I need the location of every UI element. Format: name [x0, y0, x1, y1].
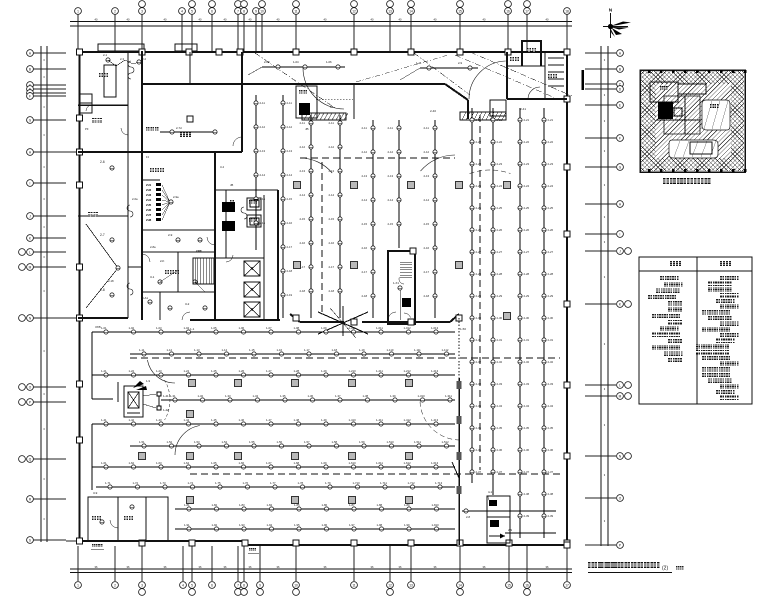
svg-text:3-4: 3-4	[220, 165, 224, 169]
svg-text:15: 15	[458, 9, 462, 13]
svg-text:14: 14	[409, 9, 413, 13]
svg-text:1-94: 1-94	[267, 523, 273, 527]
hatched threshold strip right	[460, 112, 506, 120]
svg-text:2-24: 2-24	[476, 184, 482, 188]
svg-text:2-38: 2-38	[548, 492, 554, 496]
svg-text:2-13: 2-13	[388, 174, 394, 178]
svg-text:1-29: 1-29	[321, 369, 327, 373]
legend table right column rows	[696, 276, 739, 400]
room C label	[88, 118, 102, 217]
svg-text:2-8a: 2-8a	[150, 245, 156, 249]
corridor detector row right	[400, 61, 478, 80]
legend table left column rows	[648, 276, 683, 362]
equipment alcove at corridor	[296, 86, 317, 118]
svg-text:2-18: 2-18	[108, 279, 114, 283]
svg-text:1-013: 1-013	[431, 326, 439, 330]
svg-text:1-67: 1-67	[266, 461, 272, 465]
door swing arcs upper-left	[86, 105, 242, 320]
svg-text:10: 10	[260, 9, 264, 13]
svg-text:1-54: 1-54	[222, 440, 228, 444]
svg-text:1-32: 1-32	[198, 394, 204, 398]
core block walls	[190, 190, 280, 320]
corridor door swing arc	[469, 61, 506, 99]
svg-text:2-14: 2-14	[287, 173, 293, 177]
bottom grid lines	[78, 546, 567, 581]
door curl marks corridor	[127, 205, 247, 295]
small riser bar right of wall	[582, 70, 585, 90]
svg-text:3: 3	[141, 583, 143, 587]
mid parking stair shaft	[388, 248, 416, 324]
svg-text:2-27: 2-27	[524, 250, 530, 254]
svg-text:8: 8	[243, 583, 245, 587]
svg-text:ZJ6: ZJ6	[146, 208, 152, 212]
svg-text:1-55: 1-55	[249, 440, 255, 444]
elevator shaft 3	[244, 302, 260, 317]
svg-text:1-512: 1-512	[442, 440, 450, 444]
svg-text:2-33: 2-33	[524, 382, 530, 386]
ramp edge wall right segment	[362, 314, 459, 322]
svg-text:M: M	[619, 394, 622, 398]
svg-text:2-25: 2-25	[497, 206, 503, 210]
svg-text:2-33: 2-33	[497, 382, 503, 386]
misc labels upper-left	[85, 57, 233, 253]
svg-text:1-110: 1-110	[387, 348, 394, 352]
top column grid dimension lines	[70, 18, 572, 29]
top grid lines	[78, 14, 567, 51]
wall column squares top	[139, 49, 511, 55]
svg-text:3XB: 3XB	[95, 325, 101, 329]
ramp guide diagonal	[356, 55, 448, 82]
svg-text:5: 5	[191, 583, 193, 587]
svg-text:2-30: 2-30	[476, 316, 482, 320]
svg-text:1-010: 1-010	[349, 326, 357, 330]
svg-text:2-K: 2-K	[160, 259, 164, 263]
svg-text:2: 2	[114, 583, 116, 587]
svg-text:2-23: 2-23	[524, 162, 530, 166]
outer wall bottom step	[244, 541, 246, 545]
svg-text:2-34: 2-34	[476, 404, 482, 408]
svg-text:2-29: 2-29	[476, 294, 482, 298]
interior wall chamfer	[445, 84, 468, 100]
svg-text:2-28: 2-28	[497, 272, 503, 276]
svg-text:2-35: 2-35	[476, 426, 482, 430]
interior wall x468	[467, 100, 469, 119]
svg-text:1-83: 1-83	[239, 503, 245, 507]
svg-text:F: F	[29, 94, 31, 98]
room A desk rectangle	[104, 65, 116, 97]
svg-text:1-07: 1-07	[266, 326, 272, 330]
svg-text:1-26: 1-26	[239, 369, 245, 373]
north arrow	[603, 8, 631, 39]
svg-text:1-98: 1-98	[377, 523, 383, 527]
svg-text:2-32: 2-32	[497, 360, 503, 364]
svg-text:2-35: 2-35	[524, 426, 530, 430]
svg-text:2-22: 2-22	[476, 140, 482, 144]
svg-text:ZJ4: ZJ4	[146, 198, 152, 202]
svg-text:1-35: 1-35	[280, 394, 286, 398]
svg-text:1: 1	[77, 583, 79, 587]
svg-text:2-36: 2-36	[497, 448, 503, 452]
svg-text:5: 5	[191, 9, 193, 13]
svg-text:1-612: 1-612	[404, 461, 412, 465]
svg-text:2-12: 2-12	[424, 150, 430, 154]
svg-text:PD: PD	[198, 249, 202, 253]
svg-text:9: 9	[255, 9, 257, 13]
svg-text:ZJ3: ZJ3	[146, 193, 152, 197]
svg-text:1-73: 1-73	[160, 481, 166, 485]
svg-text:PF: PF	[85, 127, 89, 131]
svg-text:1-51: 1-51	[139, 440, 145, 444]
svg-text:2-11: 2-11	[300, 121, 306, 125]
svg-text:2-33: 2-33	[476, 382, 482, 386]
svg-text:1-04: 1-04	[293, 60, 299, 64]
svg-text:E: E	[619, 103, 621, 107]
svg-text:2-24: 2-24	[548, 184, 554, 188]
svg-text:2-12: 2-12	[300, 145, 306, 149]
big room D detectors	[146, 126, 217, 134]
upper parking turn arcs	[300, 155, 511, 174]
svg-text:2-29: 2-29	[497, 294, 503, 298]
svg-text:2-31: 2-31	[548, 338, 554, 342]
left grid bubbles	[19, 50, 34, 544]
svg-text:1-65: 1-65	[211, 461, 217, 465]
ramp diagonal dash-dot lines	[255, 52, 572, 108]
service rooms dark labels	[230, 198, 261, 227]
svg-text:2-36: 2-36	[476, 448, 482, 452]
svg-text:2-15: 2-15	[362, 222, 368, 226]
svg-text:2-9a: 2-9a	[173, 195, 179, 199]
svg-text:2-16: 2-16	[329, 241, 335, 245]
ramp crossing X barrier	[318, 306, 368, 338]
lower-left rooms	[88, 491, 168, 541]
svg-text:1-76: 1-76	[243, 481, 249, 485]
svg-text:L: L	[619, 383, 621, 387]
service room scribbles	[222, 200, 259, 231]
svg-text:2-35: 2-35	[548, 426, 554, 430]
svg-text:1-41: 1-41	[101, 418, 107, 422]
svg-text:18: 18	[565, 9, 569, 13]
svg-text:1-17: 1-17	[304, 348, 310, 352]
svg-text:3-2: 3-2	[185, 302, 190, 306]
svg-text:1-43: 1-43	[156, 418, 162, 422]
svg-text:1-46: 1-46	[239, 418, 245, 422]
svg-text:P: P	[619, 543, 621, 547]
svg-text:2-3: 2-3	[120, 57, 124, 61]
svg-text:1-21: 1-21	[101, 369, 107, 373]
svg-text:2-30: 2-30	[548, 316, 554, 320]
outer wall left	[78, 52, 80, 541]
svg-text:(2): (2)	[662, 566, 668, 572]
svg-text:1-34: 1-34	[253, 394, 259, 398]
svg-text:2-22: 2-22	[524, 140, 530, 144]
svg-text:2-16: 2-16	[300, 241, 306, 245]
svg-text:1-311: 1-311	[445, 394, 452, 398]
svg-text:2-6a: 2-6a	[132, 197, 138, 201]
svg-text:7: 7	[237, 583, 239, 587]
svg-text:1-79: 1-79	[325, 481, 331, 485]
svg-text:2-31: 2-31	[524, 338, 530, 342]
corridor dotted guide	[316, 98, 353, 100]
svg-text:1-71: 1-71	[105, 481, 111, 485]
svg-text:1-91: 1-91	[184, 523, 190, 527]
svg-text:2-39: 2-39	[524, 514, 530, 518]
legend table frame	[639, 257, 752, 404]
svg-text:7: 7	[237, 9, 239, 13]
canopy stub left	[98, 44, 144, 51]
wall x459 column marks	[457, 381, 462, 494]
ramp diagonal tick near x459	[452, 462, 459, 478]
svg-text:1-97: 1-97	[349, 523, 355, 527]
svg-text:1-011: 1-011	[376, 326, 383, 330]
label near bottom step	[248, 548, 259, 553]
wall column squares bottom	[139, 540, 570, 546]
svg-text:2-23: 2-23	[548, 162, 554, 166]
big room D label	[180, 132, 191, 137]
svg-text:2-24: 2-24	[524, 184, 530, 188]
right dimension lines	[599, 46, 610, 546]
svg-text:2-29: 2-29	[548, 294, 554, 298]
svg-text:2-34: 2-34	[497, 404, 503, 408]
svg-text:1-713: 1-713	[435, 481, 443, 485]
outer wall top	[79, 51, 522, 53]
svg-text:10: 10	[294, 583, 298, 587]
wall column squares right	[564, 49, 570, 548]
svg-text:2-7d: 2-7d	[176, 126, 182, 130]
big room D column	[187, 116, 193, 122]
svg-text:2-30: 2-30	[524, 316, 530, 320]
svg-text:1-92: 1-92	[212, 523, 218, 527]
elevator shaft 2	[244, 282, 260, 297]
interior wall y105	[78, 104, 128, 106]
svg-text:2-15: 2-15	[260, 197, 266, 201]
hydrant label below wall	[91, 544, 104, 549]
svg-text:ZJ1: ZJ1	[146, 183, 152, 187]
svg-text:1-04: 1-04	[184, 326, 190, 330]
svg-text:2-15: 2-15	[424, 222, 430, 226]
svg-text:I: I	[30, 181, 31, 185]
svg-text:2-17: 2-17	[362, 270, 368, 274]
svg-text:2-12: 2-12	[287, 125, 293, 129]
svg-text:1-12: 1-12	[167, 348, 173, 352]
svg-text:1-212: 1-212	[404, 369, 412, 373]
svg-text:2-26: 2-26	[476, 228, 482, 232]
svg-text:1-96: 1-96	[322, 523, 328, 527]
svg-text:2-39: 2-39	[548, 514, 554, 518]
svg-text:1-42: 1-42	[129, 418, 135, 422]
interior wall y84 upper corridor	[142, 83, 445, 85]
svg-text:2-27: 2-27	[548, 250, 554, 254]
svg-text:1-68: 1-68	[294, 461, 300, 465]
wall column squares left	[77, 49, 83, 544]
svg-text:1-38: 1-38	[363, 394, 369, 398]
svg-text:2-26: 2-26	[548, 228, 554, 232]
interior wall x242 big room	[241, 52, 243, 152]
upper parking detector wires	[254, 95, 266, 250]
svg-text:1-22: 1-22	[129, 369, 135, 373]
svg-text:1-36: 1-36	[308, 394, 314, 398]
svg-text:2-13: 2-13	[300, 169, 306, 173]
key plan hatched square	[531, 70, 760, 172]
svg-text:2-32: 2-32	[548, 360, 554, 364]
svg-text:1-33: 1-33	[225, 394, 231, 398]
svg-text:8: 8	[243, 9, 245, 13]
svg-text:2-14: 2-14	[388, 198, 394, 202]
corridor drive arc	[303, 68, 344, 109]
partition walls mid-left	[142, 180, 178, 320]
svg-text:2-23: 2-23	[476, 162, 482, 166]
svg-text:F: F	[619, 136, 621, 140]
svg-text:1-48: 1-48	[294, 418, 300, 422]
svg-text:2-18: 2-18	[362, 294, 368, 298]
svg-text:2-27: 2-27	[476, 250, 482, 254]
svg-text:6: 6	[211, 9, 213, 13]
svg-text:1-82: 1-82	[212, 503, 218, 507]
svg-text:ZJ5: ZJ5	[146, 203, 152, 207]
svg-text:1-06: 1-06	[239, 326, 245, 330]
svg-text:2-36: 2-36	[524, 448, 530, 452]
interior wall x128 corridor	[127, 51, 129, 318]
svg-text:2-21: 2-21	[497, 118, 503, 122]
svg-text:1-510: 1-510	[387, 440, 395, 444]
room A label	[99, 73, 108, 77]
svg-text:1-112: 1-112	[442, 348, 449, 352]
svg-text:JB: JB	[230, 183, 233, 187]
svg-text:2-19: 2-19	[287, 293, 293, 297]
svg-text:1-9: 1-9	[146, 379, 150, 383]
interior wall x190 upper band	[189, 52, 191, 84]
svg-text:2-12: 2-12	[362, 150, 368, 154]
svg-text:2-37: 2-37	[548, 470, 554, 474]
svg-text:3-A1: 3-A1	[142, 296, 148, 300]
svg-text:2-36: 2-36	[548, 448, 554, 452]
svg-text:1-31: 1-31	[170, 394, 176, 398]
ramp edge wall left segment	[290, 314, 344, 322]
right strip cross row 2	[505, 528, 556, 533]
svg-text:1-610: 1-610	[349, 461, 357, 465]
bottom grid bubbles	[75, 582, 571, 596]
svg-text:1: 1	[77, 9, 79, 13]
svg-text:12: 12	[388, 583, 392, 587]
svg-text:15: 15	[507, 583, 511, 587]
svg-text:2-28: 2-28	[548, 272, 554, 276]
svg-text:B: B	[29, 67, 31, 71]
room C detectors	[100, 160, 114, 297]
svg-text:2-34: 2-34	[524, 404, 530, 408]
svg-text:1-411: 1-411	[376, 418, 383, 422]
svg-text:2-37: 2-37	[476, 470, 482, 474]
svg-text:2-9: 2-9	[458, 61, 462, 65]
svg-text:1-810: 1-810	[432, 503, 440, 507]
svg-text:1-213: 1-213	[431, 369, 439, 373]
svg-text:2-33: 2-33	[548, 382, 554, 386]
svg-text:2-37: 2-37	[497, 470, 503, 474]
svg-text:JB: JB	[305, 127, 309, 131]
svg-text:4-1: 4-1	[488, 490, 492, 494]
top-right stair hatch	[548, 58, 564, 86]
room C diagonal V mark	[86, 224, 120, 308]
svg-text:2-17: 2-17	[287, 245, 293, 249]
svg-text:2-11: 2-11	[424, 126, 430, 130]
roof shaft protrusion top	[522, 41, 541, 52]
svg-text:1-16: 1-16	[277, 348, 283, 352]
svg-text:11: 11	[294, 9, 298, 13]
svg-text:2-15: 2-15	[287, 197, 293, 201]
svg-text:2-18: 2-18	[424, 294, 430, 298]
svg-text:1-64: 1-64	[184, 461, 190, 465]
svg-text:2-13: 2-13	[287, 149, 293, 153]
svg-text:2-18: 2-18	[329, 289, 335, 293]
svg-text:17: 17	[565, 583, 569, 587]
right strip detector wires	[470, 108, 482, 483]
svg-text:2-16: 2-16	[260, 221, 266, 225]
lower parking wire riser	[92, 332, 113, 490]
svg-text:2-35: 2-35	[497, 426, 503, 430]
fan room label	[150, 168, 164, 172]
svg-text:2-13: 2-13	[362, 174, 368, 178]
svg-text:1-18: 1-18	[332, 348, 338, 352]
svg-text:1-50: 1-50	[460, 327, 466, 331]
svg-text:17: 17	[525, 9, 529, 13]
svg-text:2-41: 2-41	[520, 107, 526, 111]
svg-text:S: S	[29, 538, 31, 542]
right grid leader lines	[585, 53, 616, 545]
svg-text:2-31: 2-31	[497, 338, 503, 342]
top-right room labels	[510, 48, 557, 78]
elevator shaft 1	[244, 261, 260, 276]
svg-text:2-6: 2-6	[100, 160, 105, 164]
svg-text:4: 4	[182, 583, 184, 587]
svg-text:M: M	[29, 265, 32, 269]
outer wall bottom right	[245, 544, 567, 546]
lower parking detector rows	[92, 326, 455, 334]
svg-text:1-95: 1-95	[294, 523, 300, 527]
svg-text:1-41: 1-41	[163, 394, 169, 398]
svg-text:1-28: 1-28	[294, 369, 300, 373]
room A detectors	[103, 53, 146, 66]
svg-text:2-26: 2-26	[524, 228, 530, 232]
svg-text:ZJ7: ZJ7	[146, 213, 152, 217]
upper parking columns	[294, 182, 511, 320]
lower parking lane dashed	[130, 358, 560, 474]
svg-text:2-25: 2-25	[548, 206, 554, 210]
svg-text:ZJ8: ZJ8	[146, 218, 152, 222]
svg-text:2-28: 2-28	[524, 272, 530, 276]
drawing title	[588, 562, 683, 573]
svg-text:1-66: 1-66	[239, 461, 245, 465]
svg-text:3-9: 3-9	[93, 491, 98, 495]
svg-text:1-72: 1-72	[133, 481, 139, 485]
svg-text:N: N	[609, 8, 613, 14]
fan room label cluster	[146, 183, 179, 222]
svg-text:ZJ2: ZJ2	[146, 188, 152, 192]
closet room on left wall	[80, 94, 92, 113]
svg-text:2: 2	[114, 9, 116, 13]
svg-text:1-310: 1-310	[418, 394, 426, 398]
svg-text:2-26: 2-26	[497, 228, 503, 232]
svg-text:2-15: 2-15	[300, 217, 306, 221]
svg-text:14: 14	[458, 583, 462, 587]
svg-text:1-X1: 1-X1	[393, 281, 399, 285]
svg-text:2-11: 2-11	[287, 101, 293, 105]
svg-text:1-13: 1-13	[194, 348, 200, 352]
svg-text:11: 11	[352, 583, 356, 587]
svg-text:2-9: 2-9	[508, 528, 512, 532]
svg-text:1-1: 1-1	[190, 327, 195, 331]
svg-text:1-78: 1-78	[298, 481, 304, 485]
lower parking columns	[139, 380, 413, 504]
svg-text:1-37: 1-37	[335, 394, 341, 398]
svg-text:1-710: 1-710	[353, 481, 361, 485]
